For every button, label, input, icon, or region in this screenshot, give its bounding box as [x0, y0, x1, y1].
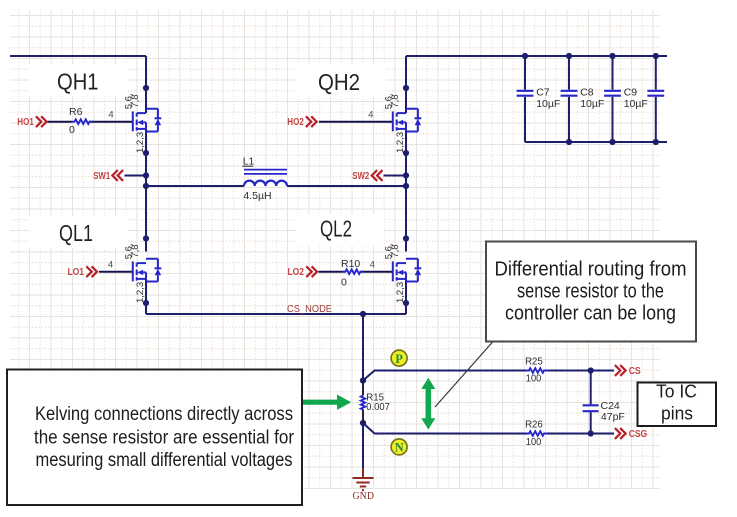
svg-text:0.007: 0.007: [366, 401, 390, 413]
wire: left rail QH1 source to QL1 drain: [145, 129, 147, 252]
wire: QH2 gate wire from HO2: [319, 121, 393, 123]
label R15 value: [366, 391, 390, 413]
junction dots capacitor bank: [522, 53, 659, 145]
wire: QL2 gate wire from LO2: [319, 271, 346, 273]
capacitor C8: [561, 56, 578, 142]
port HO1: [17, 116, 46, 128]
wire: N branch: [363, 423, 529, 434]
svg-text:1,2,3: 1,2,3: [135, 282, 146, 303]
svg-text:mesuring small differential vo: mesuring small differential voltages: [36, 450, 293, 471]
label R26 value: [525, 419, 543, 448]
port LO2: [288, 266, 318, 278]
annotation box: kelvin connections: [7, 370, 302, 506]
svg-text:the sense resistor are essenti: the sense resistor are essential for: [34, 427, 295, 448]
wire: C24 top lead: [590, 371, 592, 405]
capacitor C24: [583, 405, 599, 411]
wire: SW node left to inductor: [146, 185, 244, 187]
label QH1: [29, 64, 128, 96]
svg-text:7,8: 7,8: [390, 244, 401, 257]
junction dots right rail: [403, 85, 409, 306]
port CSG: [615, 428, 647, 440]
transistor QL2: [393, 259, 422, 282]
svg-text:pins: pins: [661, 403, 693, 424]
pin labels QL1 5,6, 7,8: [124, 243, 142, 259]
annotation box: differential routing: [486, 242, 696, 342]
wire: inductor to SW node right: [287, 185, 406, 187]
capacitor C (unlabeled): [647, 56, 664, 142]
pin labels QH2 5,6, 7,8: [384, 93, 402, 109]
svg-text:Kelving connections directly a: Kelving connections directly across: [35, 404, 293, 425]
svg-text:4: 4: [108, 110, 113, 121]
capacitor C7: [517, 56, 534, 142]
wire: P branch: [363, 371, 529, 381]
svg-text:HO2: HO2: [287, 117, 304, 128]
svg-text:4: 4: [368, 110, 373, 121]
svg-text:7,8: 7,8: [390, 94, 401, 107]
svg-text:1,2,3: 1,2,3: [395, 132, 406, 153]
svg-text:C8: C8: [580, 87, 594, 99]
port CS: [615, 365, 641, 377]
transistor QL1: [133, 259, 162, 282]
label QL2: [296, 214, 384, 246]
svg-text:SW2: SW2: [352, 171, 369, 182]
wire: left rail QH1 drain segment: [145, 56, 147, 113]
wire: capacitor bank bottom rail: [525, 141, 667, 143]
svg-text:0: 0: [341, 277, 347, 289]
svg-text:100: 100: [526, 373, 542, 385]
svg-text:C9: C9: [624, 87, 638, 99]
svg-text:R10: R10: [341, 258, 360, 270]
svg-text:QH1: QH1: [57, 69, 99, 95]
arrow: differential spacing (green double): [421, 378, 435, 430]
svg-text:QL2: QL2: [320, 216, 352, 242]
resistor R10: [342, 269, 363, 274]
resistor R25: [526, 368, 547, 373]
label R25 value: [525, 355, 543, 384]
port HO2: [287, 116, 316, 128]
callout pointer line: [435, 342, 493, 408]
wire: CS_NODE net: [146, 313, 406, 315]
label C24 value: [601, 400, 625, 423]
svg-text:controller can be long: controller can be long: [505, 303, 676, 325]
transistor QH1: [133, 109, 162, 132]
svg-text:P: P: [395, 352, 403, 366]
port SW1: [93, 170, 123, 182]
ground GND: [353, 468, 375, 502]
svg-text:CSG: CSG: [629, 429, 648, 440]
wire: SW1 port stub: [125, 175, 147, 177]
svg-text:sense resistor to the: sense resistor to the: [517, 281, 664, 303]
svg-text:7,8: 7,8: [130, 94, 141, 107]
label QH2: [296, 64, 386, 97]
wire: right rail QH2 drain segment: [405, 56, 407, 113]
svg-text:10µF: 10µF: [580, 98, 604, 110]
arrow: kelvin pointer (green): [303, 395, 351, 410]
svg-text:SW1: SW1: [93, 171, 110, 182]
wire: CS_NODE down to sense resistor: [362, 314, 364, 381]
svg-text:QL1: QL1: [59, 220, 93, 246]
label QL1: [29, 216, 128, 248]
junction dots left rail: [143, 85, 149, 306]
svg-text:To IC: To IC: [656, 381, 697, 402]
svg-text:4: 4: [108, 260, 113, 271]
inductor L1: [244, 170, 287, 186]
svg-text:0: 0: [69, 124, 75, 136]
label R6 value: [69, 106, 83, 136]
wire: P branch right of R25: [544, 370, 614, 372]
resistor R6: [72, 119, 93, 124]
wire: right rail QH2 source to QL2 drain: [405, 129, 407, 252]
svg-text:10µF: 10µF: [536, 98, 560, 110]
svg-text:QH2: QH2: [318, 69, 360, 95]
svg-text:4: 4: [370, 260, 375, 271]
svg-text:R6: R6: [69, 106, 83, 118]
port LO1: [68, 266, 97, 278]
wire: QL1 gate wire from LO1: [99, 271, 133, 273]
junction dot CS_NODE tap: [360, 311, 366, 317]
wire: right rail QL2 source down to CS_NODE: [405, 279, 407, 314]
svg-text:1,2,3: 1,2,3: [395, 282, 406, 303]
svg-text:1,2,3: 1,2,3: [135, 132, 146, 153]
annotation box: To IC pins: [638, 381, 717, 427]
svg-text:Differential routing from: Differential routing from: [495, 259, 687, 281]
svg-text:R26: R26: [525, 419, 543, 431]
wire: QH1 gate wire from HO1: [48, 121, 72, 123]
svg-text:R25: R25: [525, 355, 543, 367]
svg-text:47pF: 47pF: [601, 411, 625, 423]
wire: left rail QL1 source down to CS_NODE: [145, 279, 147, 314]
svg-text:CS_NODE: CS_NODE: [287, 303, 332, 315]
svg-text:N: N: [395, 441, 404, 455]
wire: top-right rail to capacitor bank: [406, 55, 667, 57]
resistor R15 (sense): [362, 381, 364, 396]
svg-text:7,8: 7,8: [130, 244, 141, 257]
svg-text:4.5µH: 4.5µH: [243, 190, 271, 202]
label R10 value: [341, 258, 360, 289]
junction dots R15: [360, 377, 366, 426]
node N: [391, 439, 407, 455]
transistor QH2: [393, 109, 422, 132]
svg-text:CS: CS: [629, 366, 641, 377]
resistor R26: [526, 431, 547, 436]
capacitor C9: [604, 56, 621, 142]
node P: [391, 350, 407, 366]
svg-text:HO1: HO1: [17, 117, 34, 128]
wire: SW2 port stub: [384, 175, 407, 177]
svg-text:LO1: LO1: [68, 267, 85, 278]
pin labels QL2 5,6, 7,8: [384, 243, 402, 259]
junction dots C24: [588, 367, 594, 436]
wire: R15 to ground: [362, 423, 364, 468]
svg-text:GND: GND: [353, 491, 375, 502]
wire: top-left input rail: [10, 55, 146, 57]
svg-text:LO2: LO2: [288, 267, 305, 278]
svg-text:10µF: 10µF: [624, 98, 648, 110]
label L1 value: [242, 156, 271, 202]
wire: N branch right of R26: [544, 433, 614, 435]
pin labels QH1 5,6, 7,8: [124, 93, 142, 109]
svg-text:100: 100: [526, 436, 542, 448]
svg-text:C7: C7: [536, 87, 550, 99]
wire: C24 bottom lead: [590, 412, 592, 433]
port SW2: [352, 170, 382, 182]
